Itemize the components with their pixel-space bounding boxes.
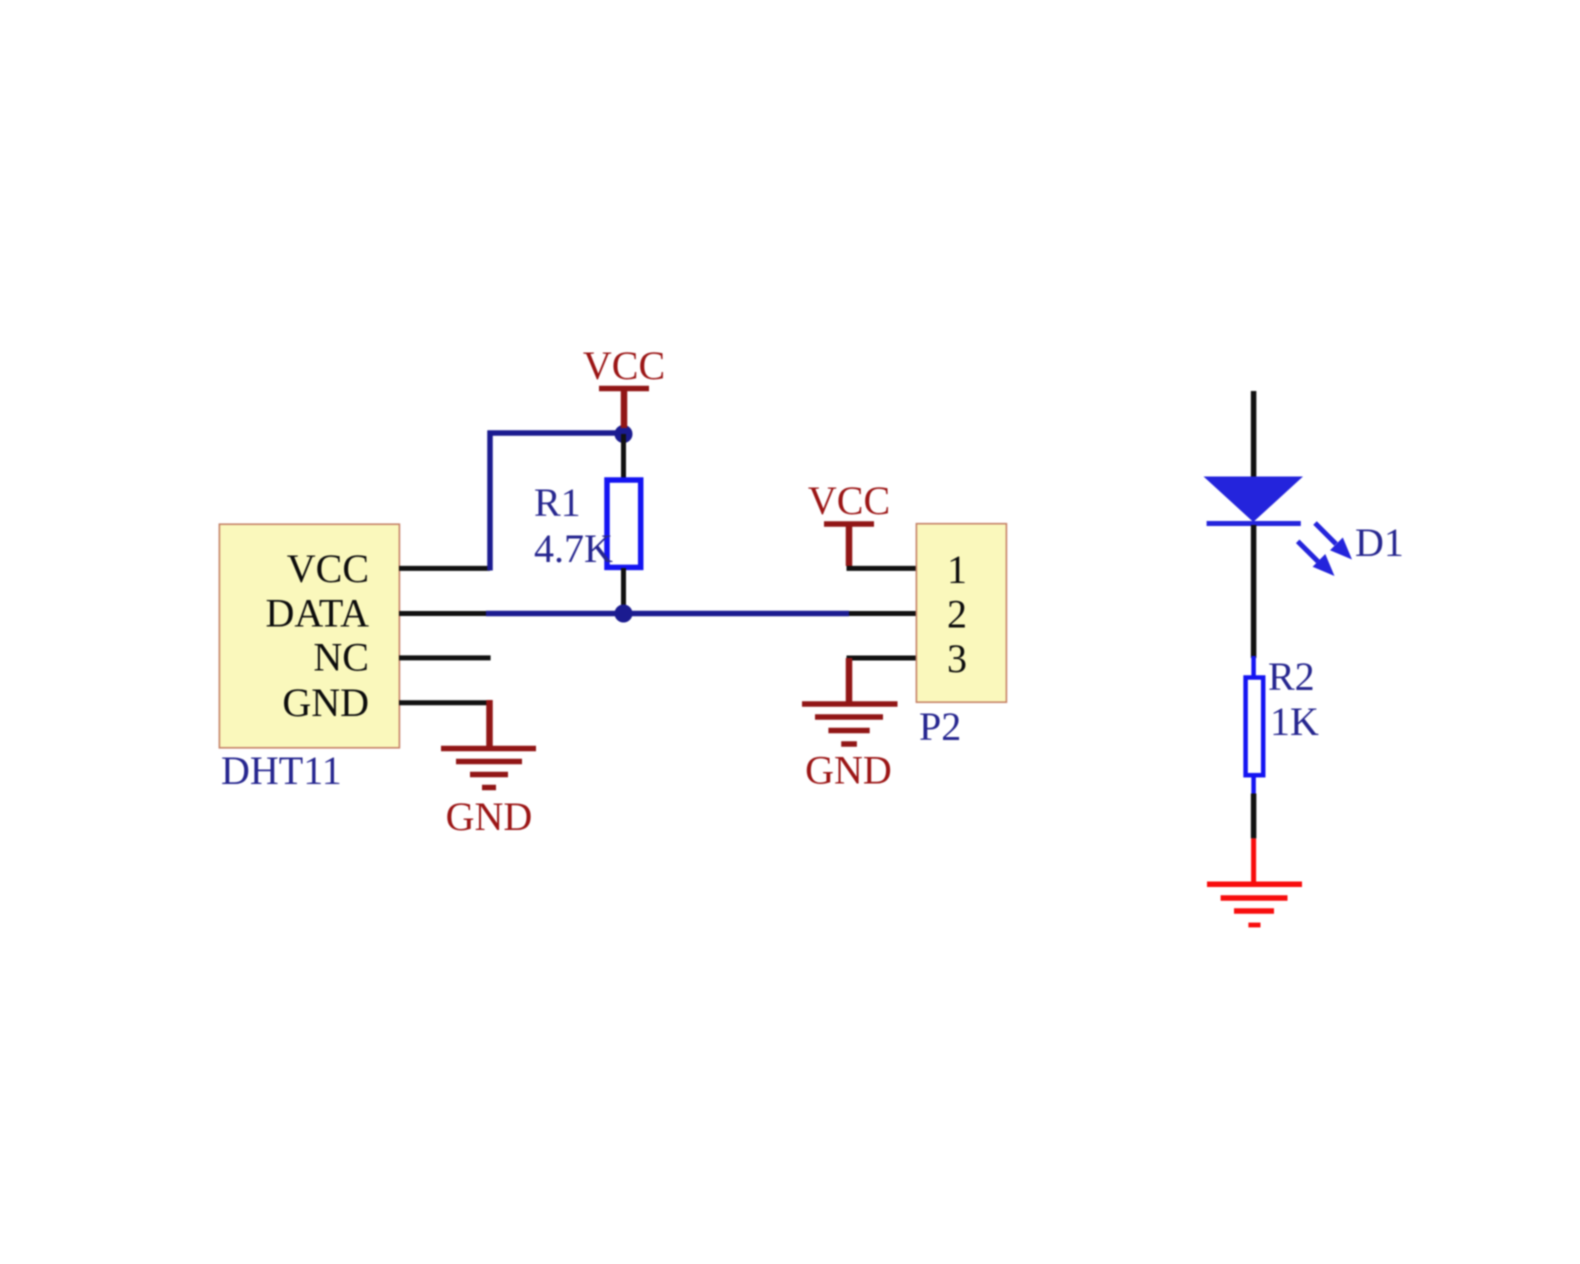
svg-text:R2: R2 — [1268, 654, 1315, 699]
LED D1 triangle — [1204, 477, 1304, 523]
node junction at VCC net — [615, 425, 633, 443]
svg-text:VCC: VCC — [583, 343, 665, 388]
wire R1 top lead — [621, 434, 626, 479]
wire P2 pin 1 — [847, 566, 917, 571]
wire GND pin of DHT11 — [399, 700, 488, 705]
ground symbol GND (at P2) — [846, 658, 853, 704]
connector P2 body — [916, 524, 1006, 703]
wire P2 pin 3 — [847, 656, 917, 661]
wire R2 to ground (black part) — [1251, 794, 1257, 839]
resistor R1 — [607, 480, 641, 567]
svg-text:GND: GND — [282, 680, 369, 725]
svg-text:1: 1 — [947, 547, 967, 592]
svg-text:DHT11: DHT11 — [221, 748, 342, 793]
wire DATA pin of DHT11 — [399, 611, 488, 616]
svg-text:NC: NC — [313, 635, 369, 680]
wire R1 bottom lead — [621, 568, 626, 614]
wire cathode of D1 to R2 — [1251, 525, 1257, 658]
ground symbol GND (below DHT11) — [486, 700, 493, 749]
LED D1 emission arrow lower — [1298, 541, 1335, 576]
svg-text:GND: GND — [446, 794, 533, 839]
wire blue vertical from VCC pin up — [487, 431, 493, 571]
component DHT11 body — [219, 524, 399, 748]
wire blue horizontal to VCC node — [488, 430, 624, 436]
svg-text:VCC: VCC — [808, 478, 890, 523]
wire to ground (red part) — [1251, 838, 1256, 884]
ground symbol (red, below R2) — [1207, 882, 1302, 888]
svg-text:P2: P2 — [919, 704, 961, 749]
wire anode of D1 (top) — [1251, 391, 1257, 478]
LED D1 cathode bar — [1207, 521, 1301, 526]
svg-text:DATA: DATA — [266, 591, 370, 636]
wire NC pin of DHT11 — [399, 655, 491, 660]
LED D1 emission arrow upper — [1315, 523, 1352, 560]
svg-text:4.7K: 4.7K — [534, 526, 613, 571]
svg-text:3: 3 — [947, 636, 967, 681]
wire P2 pin 2 — [849, 611, 916, 616]
node junction on DATA net — [615, 605, 633, 623]
wire R2 bottom lead — [1251, 775, 1256, 795]
svg-text:D1: D1 — [1355, 520, 1404, 565]
power symbol VCC (over R1) — [621, 390, 628, 428]
svg-text:R1: R1 — [534, 480, 581, 525]
svg-text:2: 2 — [947, 592, 967, 637]
wire DATA net to P2 — [486, 611, 849, 617]
svg-text:GND: GND — [805, 748, 892, 793]
svg-text:1K: 1K — [1270, 699, 1319, 744]
wire R2 top lead — [1251, 656, 1256, 678]
svg-text:VCC: VCC — [287, 546, 369, 591]
wire VCC pin of DHT11 — [399, 566, 490, 571]
resistor R2 — [1246, 678, 1264, 776]
